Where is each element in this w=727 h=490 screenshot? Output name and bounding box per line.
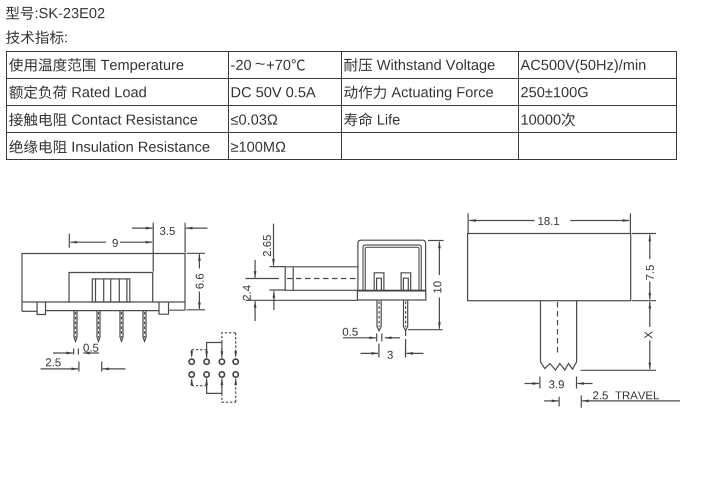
text d-18.1	[538, 217, 559, 225]
spec table	[6, 51, 677, 160]
pad row2	[189, 372, 194, 377]
view1 right tab	[159, 302, 169, 314]
text d-7.5	[646, 265, 654, 280]
text d-2.4	[243, 285, 251, 300]
text t-r3c1	[9, 113, 197, 127]
text d-X	[645, 331, 653, 338]
text t-r1c1	[9, 58, 183, 73]
view1 body outline	[22, 254, 185, 312]
view2 base plate	[357, 291, 425, 301]
dimension 2.5 view1	[79, 362, 102, 372]
dimension 0.5 view1	[74, 349, 79, 355]
view2 base top thick line	[358, 290, 426, 292]
view1 left ear bottom	[22, 310, 37, 312]
view2 lever	[285, 267, 358, 291]
view1 knob	[92, 279, 130, 302]
pad bottom-left dashed link	[192, 385, 207, 387]
text t-r4c1	[9, 140, 209, 154]
text d-0.5b	[343, 328, 358, 336]
dimension X	[581, 369, 657, 371]
view2 pin 1	[377, 300, 381, 331]
text t-r1c2	[231, 59, 305, 70]
dimension 3.5	[153, 223, 185, 272]
text t-r3c3	[344, 113, 400, 127]
view3 body	[468, 234, 631, 301]
view1 slider recess	[69, 273, 153, 303]
text d-2.5a	[46, 358, 61, 366]
text t-r1c3	[344, 58, 494, 73]
pad top-right dashed link	[222, 333, 236, 343]
text d-2.5t	[593, 391, 608, 399]
dimension 9	[68, 234, 70, 248]
pad bottom-right dashed link	[222, 393, 236, 402]
text t-r2c2	[232, 87, 316, 97]
view2 lever extension lines	[270, 267, 286, 290]
text d-3.5	[160, 227, 175, 235]
dimension 0.5 view2	[377, 334, 382, 342]
view1 right ear bottom	[169, 309, 186, 311]
text d-10	[433, 281, 441, 292]
view1 pin 3	[120, 311, 123, 342]
dimension 3	[379, 344, 406, 358]
dimension 18.1	[468, 213, 630, 233]
text d-travel	[615, 392, 659, 400]
pad top-left dashed link	[192, 349, 207, 351]
text t-r1c4	[521, 59, 646, 73]
text d-2.65	[263, 235, 271, 256]
view1 left tab	[37, 302, 45, 315]
view1 knob hatch lines	[96, 279, 127, 302]
view1 pin 4	[143, 311, 146, 342]
text d-3	[387, 351, 392, 359]
text d-3.9	[549, 380, 564, 388]
pad row1	[189, 359, 194, 364]
view2 lever end cap	[292, 267, 294, 291]
view3 shaft centerline	[557, 302, 559, 355]
text t-r3c2	[231, 114, 277, 124]
text hdr-model	[6, 6, 104, 19]
view1 pin 1	[74, 311, 77, 342]
text t-r2c3	[344, 86, 493, 101]
view2 pin 2	[404, 300, 408, 331]
view2 body inner wall	[363, 245, 421, 291]
text d-6.6	[196, 274, 204, 289]
text t-r2c1	[9, 85, 145, 99]
view1 pin 2	[97, 311, 100, 342]
view2 pin tip extension line	[408, 329, 443, 331]
view2 contact 1	[374, 273, 384, 291]
dimension 2.65	[273, 224, 275, 266]
dimension 2.5 TRAVEL	[559, 395, 581, 407]
view2 pin2 centerline extended	[405, 331, 407, 356]
text t-r2c4	[521, 87, 587, 97]
text d-9	[113, 239, 118, 247]
view2 contact 2	[401, 273, 411, 291]
view3 shaft	[541, 301, 577, 370]
text t-r4c2	[231, 142, 285, 152]
dimension 2.4	[246, 278, 280, 280]
text hdr-spec	[6, 31, 67, 45]
pad top solid bracket	[207, 343, 222, 355]
dimension 7.5	[632, 234, 656, 301]
view2 lever centerline	[287, 278, 358, 280]
text t-r3c4	[522, 113, 576, 127]
dimension 10	[428, 240, 444, 242]
view1 body bottom edge	[22, 301, 185, 303]
view2 body outer	[358, 240, 426, 290]
dimension 3.9	[540, 377, 577, 389]
dimension 6.6	[187, 253, 206, 309]
text d-0.5a	[83, 344, 98, 352]
pad bottom solid bracket	[207, 382, 222, 394]
view1 base bottom	[46, 310, 160, 312]
